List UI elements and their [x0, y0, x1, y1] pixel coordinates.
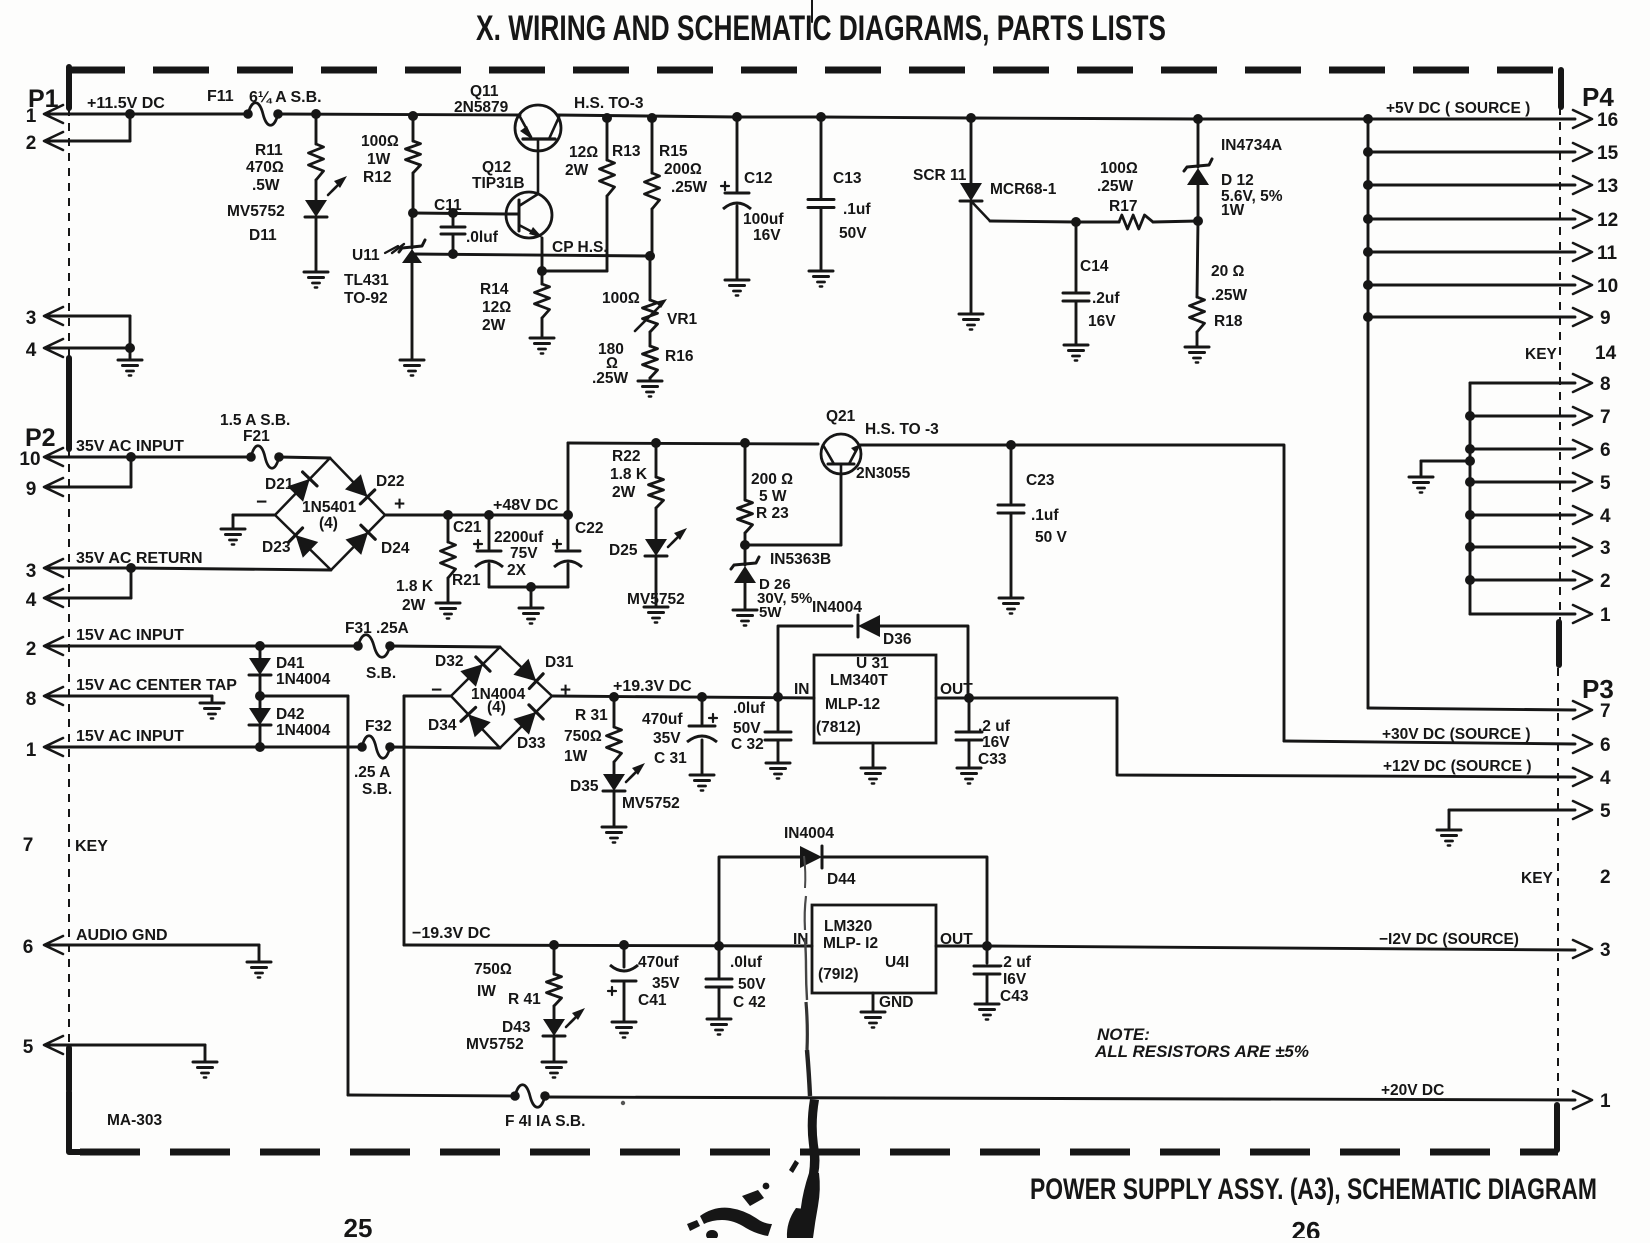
node C41 top	[619, 940, 629, 950]
label MCR68-1	[990, 181, 1057, 198]
svg-text:200Ω: 200Ω	[664, 161, 702, 178]
wire P2 pin8	[47, 695, 212, 698]
wire +30V to P3 jog	[1011, 445, 1284, 741]
svg-text:−I2V DC (SOURCE): −I2V DC (SOURCE)	[1379, 931, 1519, 948]
node pin1/pin2 junction	[125, 109, 135, 141]
node C33 top	[964, 693, 974, 703]
svg-text:1N5401: 1N5401	[302, 499, 357, 516]
resistor R15	[645, 173, 660, 209]
label MV5752 D35	[622, 795, 680, 812]
ground D26	[733, 610, 757, 626]
label C12 value	[743, 211, 784, 244]
svg-text:75V: 75V	[510, 545, 538, 562]
svg-text:470Ω: 470Ω	[246, 159, 284, 176]
svg-text:C 32: C 32	[731, 736, 764, 753]
svg-text:+11.5V DC: +11.5V DC	[87, 95, 165, 112]
capacitor C42	[706, 946, 732, 1019]
node D12 R18 junction	[1193, 216, 1203, 226]
label R12	[361, 133, 399, 186]
svg-text:3: 3	[26, 561, 37, 582]
P2 pin 4 number	[26, 590, 37, 611]
svg-text:11: 11	[1597, 243, 1618, 264]
P3 pin3 arrow	[1573, 940, 1611, 961]
connector P4 label	[1582, 82, 1614, 112]
P3 pin1 arrow	[1573, 1091, 1611, 1112]
wire P4 pin11	[1368, 251, 1575, 254]
ground P2 pin5	[193, 1062, 217, 1078]
svg-text:2W: 2W	[565, 162, 589, 179]
wire +12V line	[969, 698, 1575, 777]
svg-text:15V AC CENTER TAP: 15V AC CENTER TAP	[76, 677, 237, 694]
ground C41	[612, 1022, 636, 1038]
svg-text:1.8 K: 1.8 K	[396, 578, 434, 595]
svg-text:LM320: LM320	[824, 918, 872, 935]
svg-text:(7812): (7812)	[816, 719, 861, 736]
label R16	[665, 348, 694, 365]
label D44	[827, 871, 856, 888]
ground P3 pin5	[1437, 830, 1461, 846]
label D41	[276, 655, 331, 688]
P2 pin 7 number	[23, 835, 34, 856]
svg-text:1N4004: 1N4004	[276, 722, 331, 739]
wire rail C12 to +5V bus	[737, 117, 1368, 119]
svg-text:.2uf: .2uf	[1092, 290, 1120, 307]
svg-text:+: +	[560, 680, 571, 701]
svg-text:12Ω: 12Ω	[482, 299, 511, 316]
wire bridge minus out	[404, 696, 451, 945]
svg-text:VR1: VR1	[667, 311, 698, 328]
label D36	[883, 631, 912, 648]
svg-text:D41: D41	[276, 655, 305, 672]
svg-text:MCR68-1: MCR68-1	[990, 181, 1057, 198]
node C13 top	[816, 112, 826, 122]
svg-text:P4: P4	[1582, 82, 1614, 112]
capacitor C14	[1063, 222, 1089, 345]
P2 pin 5 arrow	[44, 1036, 63, 1054]
node bracket p6	[1465, 444, 1475, 454]
label D31	[545, 654, 574, 671]
label 15V AC INPUT lower	[76, 728, 184, 745]
label C14	[1080, 258, 1109, 275]
wire +5V to P3 pin7	[1368, 708, 1575, 710]
svg-text:SCR 11: SCR 11	[913, 167, 967, 184]
wire P1 pin4	[47, 343, 135, 353]
svg-text:.2 uf: .2 uf	[999, 954, 1032, 971]
svg-text:R21: R21	[452, 572, 481, 589]
svg-text:2N5879: 2N5879	[454, 99, 509, 116]
label R14	[480, 281, 511, 334]
node C11 top	[448, 208, 458, 218]
node R13 top	[602, 113, 612, 123]
node C22 top	[563, 510, 573, 520]
label C33	[978, 718, 1011, 768]
P3 pin4 arrow	[1573, 768, 1611, 789]
label R15	[659, 143, 708, 196]
label H.S. TO-3 Q11	[574, 95, 644, 112]
assembly border top-right corner	[1558, 70, 1564, 107]
assembly border left dotted lower	[68, 449, 70, 1048]
ground SCR11	[959, 314, 983, 330]
label U41 GND	[879, 994, 913, 1011]
label Q12	[482, 159, 511, 176]
svg-text:2W: 2W	[612, 484, 636, 501]
label +12V DC SOURCE	[1383, 758, 1532, 775]
label R41	[474, 961, 541, 1008]
svg-text:TO-92: TO-92	[344, 290, 388, 307]
svg-text:.25 A: .25 A	[354, 764, 390, 781]
zener D12	[1184, 119, 1212, 221]
connector P2 border bar	[66, 358, 72, 449]
P2 pin 4 arrow	[44, 589, 63, 607]
label bridge minus	[256, 492, 267, 513]
wire R11 top lead	[315, 114, 318, 144]
regulator U31 box	[814, 655, 936, 743]
svg-text:+12V DC (SOURCE ): +12V DC (SOURCE )	[1383, 758, 1532, 775]
label H.S. TO-3 Q21	[865, 421, 939, 438]
svg-text:1: 1	[26, 106, 37, 127]
zener U11 TL431	[392, 240, 425, 263]
P2 pin 5 number	[23, 1037, 34, 1058]
svg-text:15V AC INPUT: 15V AC INPUT	[76, 627, 184, 644]
label C23	[1026, 472, 1055, 489]
P4 pin4 arrow	[1573, 506, 1611, 527]
capacitor C13	[808, 117, 834, 271]
fuse F21	[246, 446, 284, 469]
node C21 top	[484, 510, 494, 520]
scan artifact ink smudge	[621, 856, 820, 1240]
connector bar between P4 and P3	[1556, 622, 1562, 665]
label C12	[744, 170, 772, 187]
P4 pin11 arrow	[1573, 243, 1618, 264]
wire D43 to ground	[553, 1036, 556, 1062]
resistor R11	[309, 144, 324, 180]
wire U31 out	[936, 697, 969, 700]
svg-text:12Ω: 12Ω	[569, 144, 598, 161]
wire P2 pin3 return	[47, 568, 331, 570]
wire F32 to bridge	[390, 747, 500, 748]
ground D25	[644, 607, 668, 623]
P4 pin9 arrow	[1573, 308, 1611, 329]
fuse F41	[510, 1085, 550, 1108]
ground D35	[602, 827, 626, 843]
svg-text:.1uf: .1uf	[843, 201, 871, 218]
svg-text:D31: D31	[545, 654, 574, 671]
diode D22	[345, 474, 375, 504]
ground P1 pins 3-4	[118, 360, 142, 376]
svg-text:Q11: Q11	[470, 83, 499, 100]
connector P3 bottom bar	[1554, 1105, 1560, 1150]
label +30V DC SOURCE	[1382, 726, 1531, 743]
label R18	[1214, 313, 1243, 330]
ground D43	[542, 1062, 566, 1078]
P2 pin 3 number	[26, 561, 37, 582]
label F21 rating	[220, 412, 290, 429]
P2 pin 9 number	[26, 479, 37, 500]
resistor R14	[535, 271, 550, 338]
svg-text:C11: C11	[434, 197, 462, 214]
svg-text:R17: R17	[1109, 198, 1137, 215]
svg-text:−19.3V DC: −19.3V DC	[412, 925, 491, 942]
svg-text:CP H.S.: CP H.S.	[552, 239, 608, 256]
svg-text:.0luf: .0luf	[730, 954, 763, 971]
wire P4 pin6	[1470, 448, 1575, 451]
resistor R12	[406, 141, 421, 173]
label 2200uf	[494, 529, 544, 579]
wire +48V rail	[385, 514, 568, 517]
wire R11 to D11	[315, 180, 318, 200]
caption power supply assy	[1030, 1173, 1597, 1206]
label F31 SB	[366, 665, 396, 682]
svg-text:.1uf: .1uf	[1031, 507, 1059, 524]
svg-text:7: 7	[1600, 407, 1611, 428]
label C11	[434, 197, 462, 214]
diode D41	[249, 646, 271, 696]
wire D36 loop	[778, 626, 968, 697]
node bus p11	[1363, 247, 1373, 257]
assembly border bottom-left corner	[69, 1092, 80, 1152]
svg-text:R11: R11	[255, 142, 283, 159]
label D32	[435, 653, 463, 670]
label C13	[833, 170, 862, 187]
svg-text:D44: D44	[827, 871, 856, 888]
assembly border top-left corner	[66, 67, 72, 108]
label R13 value	[565, 144, 598, 179]
svg-text:35V: 35V	[653, 730, 681, 747]
wire D26 to Q21 collector	[745, 474, 841, 545]
label +19.3V DC	[613, 678, 692, 695]
node R15 top	[647, 113, 657, 123]
label AUDIO GND	[76, 927, 168, 944]
svg-text:100Ω: 100Ω	[1100, 160, 1138, 177]
wire P1 pin2	[47, 140, 130, 143]
wire D11 to ground	[315, 217, 318, 272]
label D22	[376, 473, 404, 490]
svg-text:−: −	[431, 680, 442, 701]
svg-text:R16: R16	[665, 348, 694, 365]
node SCR11 anode	[966, 113, 976, 123]
wire audio gnd	[47, 945, 259, 962]
node D41 top	[255, 641, 265, 651]
wire P2 pin4	[47, 597, 131, 600]
wire P2 pin1 to F32	[47, 746, 362, 749]
svg-text:TL431: TL431	[344, 272, 389, 289]
P3 pin5 arrow	[1573, 801, 1611, 822]
svg-text:6: 6	[1600, 440, 1611, 461]
svg-text:R 31: R 31	[575, 707, 608, 724]
LED D11	[305, 176, 347, 217]
svg-text:MLP- I2: MLP- I2	[823, 935, 878, 952]
svg-text:IN4734A: IN4734A	[1221, 137, 1282, 154]
svg-text:3: 3	[1600, 538, 1611, 559]
label 2N5879	[454, 99, 509, 116]
svg-text:LM340T: LM340T	[830, 672, 888, 689]
P1 pin 4 arrow	[44, 339, 63, 357]
transistor Q12	[506, 192, 552, 238]
node R41 top	[549, 940, 559, 950]
transistor Q21	[821, 434, 861, 474]
wire +5V bus vertical	[1367, 119, 1370, 708]
wire U31 gnd stem	[872, 743, 875, 768]
label +11.5V DC	[87, 95, 165, 112]
svg-text:C14: C14	[1080, 258, 1109, 275]
wire Q12 emitter down	[541, 238, 544, 271]
LED D35	[603, 763, 645, 791]
svg-text:14: 14	[1595, 343, 1617, 364]
diode D32	[460, 657, 490, 687]
P4 pin6 arrow	[1573, 440, 1611, 461]
svg-text:100Ω: 100Ω	[361, 133, 399, 150]
wire R13 return	[542, 196, 607, 271]
wire D35 to ground	[613, 791, 616, 827]
page number 26	[1292, 1216, 1321, 1243]
svg-text:2W: 2W	[402, 597, 426, 614]
svg-text:.0luf: .0luf	[733, 700, 766, 717]
capacitor C12	[721, 117, 751, 280]
svg-text:D11: D11	[249, 227, 277, 244]
svg-text:2: 2	[1600, 571, 1611, 592]
svg-text:D23: D23	[262, 539, 291, 556]
label MV5752 D11	[227, 203, 285, 220]
node bracket p3	[1465, 542, 1475, 552]
label F32 rating	[354, 764, 392, 798]
assembly border left dotted upper	[68, 108, 70, 358]
svg-text:470uf: 470uf	[642, 711, 683, 728]
wire +48V jog up	[567, 443, 570, 515]
svg-text:IW: IW	[477, 983, 496, 1000]
ground R21	[436, 603, 460, 619]
P4 pin15 arrow	[1573, 143, 1619, 164]
wire +19.3V rail	[552, 696, 814, 698]
node bus p16	[1363, 114, 1373, 124]
wire D25 to ground	[655, 556, 658, 607]
svg-text:7: 7	[23, 835, 34, 856]
label 35V AC INPUT	[76, 438, 184, 455]
label 1N4734A	[1221, 137, 1282, 154]
node bracket p4	[1465, 510, 1475, 520]
bridge rectifier D21-D24 diamond	[275, 458, 385, 570]
svg-text:16V: 16V	[1088, 313, 1116, 330]
wire +20V line	[545, 1097, 1575, 1100]
P4 pin1 arrow	[1573, 605, 1611, 626]
svg-text:KEY: KEY	[1525, 346, 1558, 363]
svg-text:D25: D25	[609, 542, 638, 559]
node R22 top	[651, 438, 661, 448]
wire P4 pin1	[1470, 613, 1575, 616]
P4 pin8 arrow	[1573, 374, 1611, 395]
wire R12 top lead	[412, 116, 415, 141]
svg-text:.25W: .25W	[1097, 178, 1134, 195]
wire P3 pin5 ground	[1449, 810, 1575, 830]
wire VR1 to R16	[649, 332, 652, 346]
svg-text:25: 25	[344, 1213, 373, 1238]
P4 pin13 arrow	[1573, 176, 1618, 197]
node pin3/4 junction	[126, 563, 136, 598]
label TO-92	[344, 290, 388, 307]
node R23 top	[740, 438, 750, 448]
wire to F41	[348, 1095, 515, 1096]
node bus p15	[1363, 147, 1373, 157]
P4 pin10 arrow	[1573, 276, 1618, 297]
P2 pin 2 arrow	[44, 637, 63, 655]
label +20V DC	[1381, 1082, 1444, 1099]
svg-text:+5V DC ( SOURCE ): +5V DC ( SOURCE )	[1386, 100, 1530, 117]
label lower bridge plus	[560, 680, 571, 701]
node D12 top	[1193, 114, 1203, 124]
svg-text:470uf: 470uf	[638, 954, 679, 971]
label D34	[428, 717, 457, 734]
svg-text:1: 1	[1600, 1091, 1611, 1112]
P4 pin12 arrow	[1573, 210, 1618, 231]
label D43	[502, 1019, 531, 1036]
P2 pin 1 number	[26, 740, 37, 761]
node R21 top	[443, 510, 453, 520]
svg-text:C33: C33	[978, 751, 1007, 768]
svg-text:R13: R13	[612, 143, 641, 160]
diode D31	[513, 659, 543, 689]
svg-text:C21: C21	[453, 519, 482, 536]
wire P4 pin13	[1368, 184, 1575, 187]
ground upper bridge	[221, 529, 245, 545]
svg-text:2: 2	[26, 133, 37, 154]
transistor Q11	[515, 105, 561, 193]
diode D24	[346, 525, 376, 555]
P1 pin 4 number	[26, 340, 37, 361]
svg-text:MV5752: MV5752	[466, 1036, 524, 1053]
svg-text:1W: 1W	[1221, 202, 1245, 219]
label C31	[642, 711, 687, 767]
resistor R17	[1119, 215, 1153, 229]
label MV5752 D25	[627, 591, 685, 608]
node C12 top	[732, 112, 742, 122]
svg-text:2: 2	[26, 639, 37, 660]
svg-text:15V AC INPUT: 15V AC INPUT	[76, 728, 184, 745]
label D11	[249, 227, 277, 244]
svg-text:4: 4	[26, 590, 37, 611]
node C42 top	[714, 941, 724, 951]
label lower bridge minus	[431, 680, 442, 701]
resistor R21	[441, 515, 456, 603]
label C42	[730, 954, 766, 1011]
svg-text:10: 10	[19, 449, 40, 470]
P1 pin 1 number	[26, 106, 37, 127]
label D24	[381, 540, 410, 557]
node C32 top	[773, 692, 783, 702]
wire D12 to R18	[1197, 221, 1198, 297]
ground U11	[400, 360, 424, 376]
svg-text:(4): (4)	[319, 515, 338, 532]
wire P4 pin15	[1368, 151, 1575, 154]
wire F21 to bridge	[279, 457, 330, 458]
svg-text:4: 4	[1600, 768, 1611, 789]
label MA-303	[107, 1112, 163, 1129]
label C21	[453, 519, 482, 536]
ground P4 bracket	[1409, 477, 1433, 493]
svg-text:D 12: D 12	[1221, 172, 1254, 189]
ground R16	[638, 378, 662, 397]
wire R12 to base node	[412, 173, 415, 213]
connector P2 label	[25, 424, 56, 452]
ground audio	[247, 962, 271, 978]
label U11	[352, 246, 398, 264]
svg-text:7: 7	[1600, 701, 1611, 722]
node R12 top	[408, 111, 418, 121]
fuse F32	[357, 736, 395, 759]
P2 pin 2 number	[26, 639, 37, 660]
capacitor C32	[765, 697, 791, 763]
svg-text:2W: 2W	[482, 317, 506, 334]
svg-text:R12: R12	[363, 169, 391, 186]
svg-text:2: 2	[1600, 867, 1611, 888]
